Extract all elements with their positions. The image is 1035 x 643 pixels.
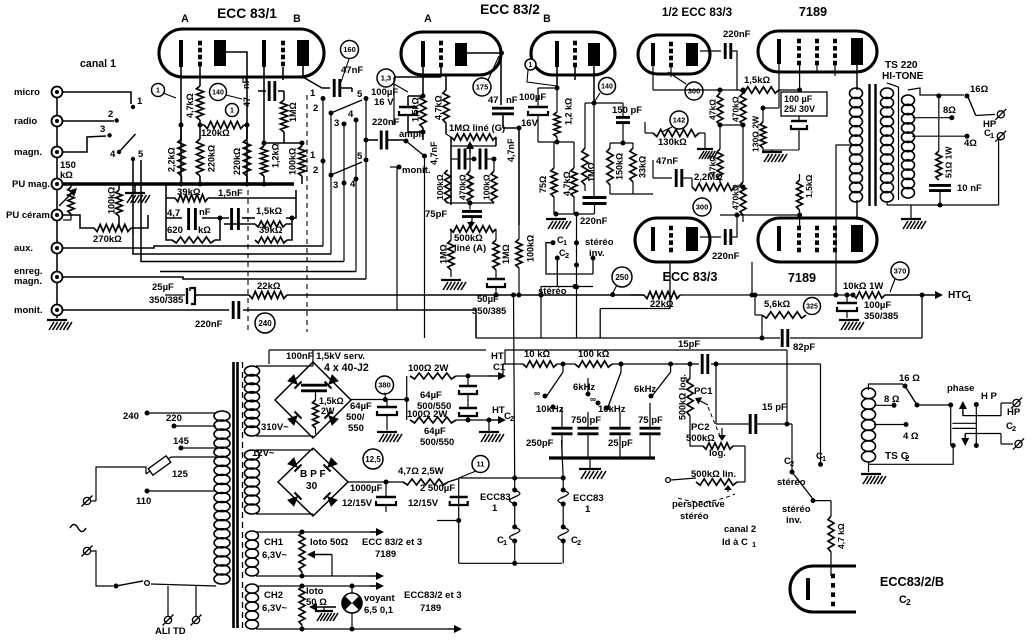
- svg-text:50µF: 50µF: [477, 294, 499, 305]
- svg-text:140: 140: [212, 90, 224, 97]
- wire drv grid: [670, 65, 672, 77]
- switch monit: [390, 165, 431, 311]
- transformer TS220 secondary 2: [902, 95, 915, 198]
- svg-text:stéréo: stéréo: [777, 477, 806, 488]
- svg-text:6kHz: 6kHz: [634, 384, 656, 395]
- svg-text:6,5 0,1: 6,5 0,1: [364, 605, 394, 616]
- capacitor 220nF tube2B: [574, 198, 608, 339]
- cable C1: [509, 293, 520, 564]
- wire mid right bus: [476, 293, 925, 339]
- svg-text:A: A: [424, 13, 432, 25]
- svg-text:7189: 7189: [799, 5, 827, 19]
- svg-text:16Ω: 16Ω: [970, 84, 989, 95]
- resistor 4,7k tube2A: [434, 75, 450, 134]
- wire stereo line: [538, 284, 593, 338]
- svg-text:monit.: monit.: [402, 165, 431, 176]
- svg-text:6kHz: 6kHz: [573, 382, 595, 393]
- phase pole left: [948, 403, 956, 449]
- svg-text:220nF: 220nF: [712, 251, 740, 262]
- resistor 130ohm 2W: [751, 64, 780, 152]
- svg-text:300: 300: [696, 203, 709, 212]
- capacitor 220nF ampli: [364, 117, 405, 150]
- label C1 psu: [0, 0, 1, 1]
- arrow HT C2 psu: [488, 405, 514, 424]
- svg-text:CH2: CH2: [264, 590, 283, 601]
- svg-text:110: 110: [136, 496, 151, 507]
- svg-text:350/385: 350/385: [472, 306, 507, 317]
- svg-text:220nF: 220nF: [580, 216, 608, 227]
- svg-text:350/385: 350/385: [864, 311, 899, 322]
- svg-text:100µF: 100µF: [519, 92, 546, 103]
- svg-text:canal 2: canal 2: [724, 524, 756, 535]
- svg-text:142: 142: [673, 116, 686, 125]
- transformer primary coil: [214, 411, 230, 584]
- tube ECC83/2/B electrodes: [808, 574, 835, 607]
- wire sec bottom: [887, 202, 999, 218]
- capacitor 75pF: [425, 209, 482, 224]
- svg-text:470kΩ: 470kΩ: [731, 184, 741, 210]
- wire drv cathode: [652, 66, 654, 90]
- wire tube2B anode: [592, 66, 597, 197]
- svg-text:5: 5: [357, 89, 363, 100]
- svg-text:75Ω: 75Ω: [538, 176, 548, 193]
- svg-text:4,7nF: 4,7nF: [429, 141, 439, 165]
- svg-text:1: 1: [822, 454, 826, 463]
- rectifier bridge BPF30: [278, 448, 348, 516]
- ground tone: [579, 458, 606, 479]
- svg-text:kΩ: kΩ: [60, 170, 73, 181]
- resistor 150k input: [59, 160, 77, 220]
- svg-text:kΩ: kΩ: [198, 225, 211, 236]
- svg-text:2: 2: [906, 597, 911, 607]
- wire 7189 grid1: [797, 63, 802, 93]
- phase cross bars: [952, 423, 976, 428]
- tube 1/2 ECC83/3 electrodes: [653, 42, 698, 68]
- wire monit extension: [600, 262, 670, 338]
- svg-text:82pF: 82pF: [793, 342, 815, 353]
- speaker2 16ohm: [899, 373, 920, 389]
- svg-text:7189: 7189: [420, 603, 441, 614]
- wire screen drop: [750, 262, 755, 298]
- speaker tap 16ohm: [965, 84, 989, 99]
- svg-text:micro: micro: [14, 87, 40, 98]
- test point 12,5: [363, 449, 383, 469]
- resistor 4,7k out: [813, 501, 846, 576]
- label 240: [123, 411, 216, 423]
- svg-text:6,3V~: 6,3V~: [262, 550, 288, 561]
- wire bridge1 out: [351, 376, 409, 420]
- svg-text:3: 3: [333, 180, 338, 191]
- svg-text:3: 3: [100, 124, 105, 135]
- wire box top: [166, 198, 296, 218]
- wire monit bus: [63, 310, 476, 338]
- wire bus 2: [133, 161, 331, 254]
- svg-text:B: B: [293, 13, 301, 25]
- capacitor 47nF tube1: [241, 78, 284, 107]
- capacitor 47nF drv: [653, 156, 692, 187]
- resistor 1,5k out: [797, 174, 815, 215]
- ground 64uF: [479, 418, 504, 443]
- svg-text:ECC83/2 et 3: ECC83/2 et 3: [404, 590, 462, 601]
- svg-text:TS 220: TS 220: [885, 60, 918, 71]
- tube 7189 upper envelope: [758, 5, 877, 72]
- wire input ground bus: [56, 92, 58, 318]
- rectifier bridge 4x40J2: [275, 362, 351, 438]
- resistor 270k: [93, 224, 131, 245]
- test point 11: [472, 456, 489, 473]
- test point 142: [662, 111, 688, 132]
- svg-text:1,3: 1,3: [381, 74, 391, 83]
- dashed gang PC: [708, 407, 720, 436]
- resistor 2,2M: [692, 172, 746, 191]
- svg-text:ECC 83/1: ECC 83/1: [217, 6, 277, 21]
- test point 370: [890, 262, 909, 292]
- potentiometer 1M line G: [446, 123, 505, 153]
- ground volume box: [441, 280, 466, 290]
- transformer TS220 core: [870, 84, 876, 206]
- test point 1b circle: [226, 104, 239, 117]
- wire tube1A anode: [226, 52, 247, 183]
- svg-text:2,2kΩ: 2,2kΩ: [167, 147, 177, 172]
- svg-text:nF: nF: [506, 95, 518, 106]
- wire tube1B grid: [282, 67, 284, 80]
- transformer TSC2 coil: [862, 384, 904, 462]
- capacitor 220nF monit: [195, 301, 239, 330]
- svg-text:22kΩ: 22kΩ: [650, 299, 674, 310]
- capacitor 2500uF: [408, 483, 468, 509]
- mains terminal 2: [82, 546, 114, 587]
- svg-text:PC2: PC2: [691, 422, 709, 433]
- svg-text:HT: HT: [491, 351, 504, 362]
- input terminal radio: [14, 116, 63, 128]
- svg-text:120kΩ: 120kΩ: [201, 128, 230, 139]
- wire tube1B anode out: [303, 66, 330, 88]
- svg-text:25/ 30V: 25/ 30V: [784, 104, 815, 114]
- resistor 2,2k: [167, 125, 186, 184]
- svg-text:39kΩ: 39kΩ: [259, 225, 283, 236]
- svg-text:100 µF: 100 µF: [784, 94, 813, 104]
- ground HT cap: [839, 320, 864, 330]
- resistor 5,6k: [753, 293, 807, 319]
- heater CH1 label: [262, 537, 288, 561]
- svg-text:4,7Ω 2,5W: 4,7Ω 2,5W: [398, 466, 444, 477]
- svg-text:10kHz: 10kHz: [536, 404, 564, 415]
- svg-text:5: 5: [138, 149, 144, 160]
- svg-text:4 x 40-J2: 4 x 40-J2: [324, 362, 369, 374]
- tube ECC83/1 section B electrodes: [264, 40, 309, 67]
- test point 250: [610, 267, 632, 297]
- wire 7189 screens: [817, 63, 835, 76]
- svg-text:perspective: perspective: [672, 499, 725, 510]
- svg-text:1MΩ: 1MΩ: [587, 162, 597, 182]
- wire sec1 join: [887, 83, 899, 200]
- tube ECC83/2 section B electrodes: [557, 41, 600, 68]
- svg-text:15pF: 15pF: [678, 339, 700, 350]
- svg-text:51Ω 1W: 51Ω 1W: [944, 146, 954, 178]
- svg-text:loto: loto: [306, 586, 324, 597]
- svg-text:1: 1: [967, 294, 972, 303]
- svg-text:ECC83: ECC83: [480, 492, 511, 503]
- wire 7189 anodes: [856, 65, 858, 218]
- svg-text:1: 1: [156, 88, 160, 95]
- svg-text:30: 30: [306, 481, 318, 492]
- resistor 150k tube2B: [607, 143, 625, 194]
- svg-text:voyant: voyant: [364, 593, 395, 604]
- svg-text:380: 380: [378, 381, 391, 390]
- resistor 51ohm 1W: [936, 96, 954, 180]
- capacitor 100uF HT: [837, 293, 899, 323]
- resistor 1M tube2B: [582, 103, 597, 191]
- svg-text:inv.: inv.: [786, 515, 802, 526]
- svg-text:nF: nF: [199, 207, 211, 218]
- resistor 39k: [175, 187, 208, 202]
- wire TSC2 return: [869, 446, 954, 465]
- heater CH1 wires: [256, 528, 384, 580]
- label ECC83 CH1: [362, 537, 422, 560]
- wire radio to selector: [63, 120, 114, 122]
- svg-text:220: 220: [166, 413, 182, 424]
- wire 39k row: [166, 184, 296, 198]
- switch treble 2: [573, 364, 626, 415]
- node dots tone: [561, 362, 674, 367]
- wire cluster risers: [323, 99, 366, 280]
- speaker2 4ohm: [874, 422, 919, 442]
- svg-text:2,2MΩ: 2,2MΩ: [694, 172, 723, 183]
- svg-text:CH1: CH1: [264, 537, 284, 548]
- svg-text:100kΩ: 100kΩ: [107, 187, 117, 214]
- resistor 120k: [200, 121, 247, 139]
- resistor 4,7k tube2B: [562, 142, 577, 214]
- svg-text:150 pF: 150 pF: [612, 105, 642, 116]
- switch treble 1: [534, 364, 564, 415]
- svg-text:1: 1: [310, 150, 316, 161]
- switch phase blade: [905, 386, 951, 408]
- svg-text:liné (A): liné (A): [454, 243, 486, 254]
- wire tube2B grid: [574, 67, 576, 80]
- wire cathode join tube2A: [408, 94, 426, 135]
- capacitor 47nF coupling: [334, 65, 363, 97]
- svg-text:8Ω: 8Ω: [943, 105, 956, 116]
- wire bus 4: [160, 271, 356, 273]
- svg-text:4,7kΩ: 4,7kΩ: [562, 171, 572, 196]
- svg-text:2: 2: [565, 251, 569, 260]
- svg-text:stéréo: stéréo: [680, 511, 709, 522]
- speaker tap 8ohm: [913, 105, 957, 120]
- svg-text:10 nF: 10 nF: [957, 183, 982, 194]
- transformer core: [234, 362, 243, 628]
- tube 7189 upper electrodes: [779, 38, 863, 65]
- resistor 47k b: [708, 149, 724, 183]
- tube ECC83/2 section B envelope: [531, 13, 615, 75]
- svg-text:220nF: 220nF: [723, 29, 751, 40]
- label ECC83 c2: [571, 493, 604, 547]
- svg-text:4,7 kΩ: 4,7 kΩ: [836, 523, 846, 549]
- resistor 1M box left: [439, 229, 455, 277]
- label 100uF 16V b: [519, 92, 546, 129]
- potentiometer PC1: [678, 362, 714, 431]
- label TSC2: [885, 451, 910, 463]
- resistor 100k input: [107, 184, 123, 228]
- svg-text:ECC83/2/B: ECC83/2/B: [880, 575, 944, 589]
- svg-text:magn.: magn.: [14, 276, 42, 287]
- capacitor 220nF drv bot: [700, 213, 802, 263]
- svg-text:10kHz: 10kHz: [598, 404, 626, 415]
- label 100uF 16V a: [371, 87, 398, 108]
- switch stereo inv: [585, 237, 614, 274]
- wire 270k right: [131, 215, 148, 228]
- svg-text:10 kΩ: 10 kΩ: [524, 349, 550, 360]
- svg-text:12,5: 12,5: [365, 455, 381, 464]
- tube 7189 lower electrodes: [779, 225, 863, 252]
- input terminal magn.: [14, 147, 63, 159]
- svg-text:750 pF: 750 pF: [571, 415, 601, 426]
- svg-text:Id à C: Id à C: [722, 537, 748, 548]
- arrow HT C1 psu: [488, 351, 506, 380]
- svg-text:magn.: magn.: [14, 147, 42, 158]
- ground tube2B: [546, 212, 594, 230]
- test point 1c: [525, 59, 557, 86]
- svg-text:2: 2: [1012, 424, 1016, 433]
- node dots bus: [179, 123, 267, 187]
- resistor 100k tone: [575, 349, 612, 367]
- svg-text:140: 140: [601, 84, 613, 91]
- label phase: [947, 383, 974, 394]
- tube ECC83/2 section A envelope: [401, 2, 540, 75]
- capacitor 50uF: [472, 277, 507, 317]
- svg-text:220nF: 220nF: [372, 117, 400, 128]
- svg-text:11: 11: [477, 460, 485, 469]
- label 12V: [252, 448, 275, 459]
- svg-text:130kΩ: 130kΩ: [658, 137, 687, 148]
- wire bus 3: [141, 160, 344, 262]
- wire HP C1 down: [998, 140, 1000, 205]
- box 100uF 25-30V: [781, 92, 827, 116]
- svg-text:4: 4: [348, 109, 354, 120]
- svg-text:7189: 7189: [788, 271, 816, 285]
- svg-text:log.: log.: [709, 448, 726, 459]
- svg-text:16 V: 16 V: [374, 97, 394, 108]
- tube 1/2 ECC83/3 envelope: [638, 6, 733, 74]
- svg-text:47: 47: [242, 97, 252, 107]
- svg-text:nF: nF: [241, 78, 251, 89]
- selector contact 4: [110, 149, 121, 160]
- svg-text:1,2kΩ: 1,2kΩ: [271, 143, 281, 168]
- test point 1 circle: [152, 84, 177, 99]
- svg-text:64µF: 64µF: [420, 390, 442, 401]
- resistor 75ohm: [538, 142, 574, 214]
- input terminal micro: [14, 87, 63, 99]
- capacitor 64uF a: [417, 374, 477, 413]
- switch ampli: [399, 129, 427, 338]
- test point 300a: [668, 72, 703, 100]
- svg-text:250: 250: [615, 273, 629, 282]
- resistor 470k b: [731, 125, 747, 222]
- test point 160: [341, 41, 359, 83]
- svg-text:500/: 500/: [346, 412, 365, 423]
- speaker tap 4ohm: [912, 134, 977, 149]
- svg-text:H P: H P: [981, 391, 998, 402]
- test point 325: [804, 298, 821, 315]
- capacitor 750pF: [571, 412, 601, 458]
- transformer secondary CH1: [246, 531, 259, 576]
- wire tone bus: [549, 456, 655, 459]
- wire micro to selector: [63, 92, 131, 104]
- label ECC83 c1: [480, 492, 511, 547]
- resistor 470k box: [451, 144, 496, 204]
- wire mid join drv: [718, 123, 746, 150]
- capacitor box 2: [232, 208, 239, 230]
- wire primary B+: [836, 145, 856, 295]
- capacitor 10nF: [929, 183, 982, 205]
- svg-text:1: 1: [563, 238, 567, 247]
- svg-text:240: 240: [258, 319, 272, 328]
- test point 240: [255, 313, 275, 333]
- phase arrow up: [959, 401, 1012, 416]
- label perspective: [672, 499, 725, 522]
- resistor 10k tone: [523, 349, 557, 367]
- label BPF30: [300, 469, 326, 492]
- resistor 100k tube1B: [284, 141, 306, 185]
- wire psu top line: [269, 350, 486, 364]
- tube ECC83/2 section A electrodes: [423, 41, 467, 68]
- wire canal2 net: [744, 446, 746, 482]
- switch treble 3: [634, 364, 671, 399]
- switch stereo C2: [555, 248, 569, 287]
- selector contact 2: [108, 109, 119, 123]
- svg-text:250pF: 250pF: [526, 438, 554, 449]
- svg-text:HP: HP: [1007, 407, 1021, 418]
- svg-text:5: 5: [357, 151, 363, 162]
- svg-text:25µF: 25µF: [152, 282, 174, 293]
- label 145: [173, 436, 216, 451]
- wire tube1A cathode down: [180, 67, 182, 184]
- svg-text:10kΩ 1W: 10kΩ 1W: [843, 281, 883, 292]
- svg-text:16 Ω: 16 Ω: [899, 373, 920, 384]
- svg-text:620: 620: [167, 225, 183, 236]
- tube ECC83/2/B envelope: [790, 566, 944, 612]
- resistor 1,5k tube2A: [411, 67, 427, 140]
- svg-text:75pF: 75pF: [425, 209, 447, 220]
- svg-text:1,5kΩ: 1,5kΩ: [744, 75, 770, 86]
- wire 150k 33k top: [610, 141, 653, 195]
- label 1,5k 2W: [313, 392, 344, 434]
- svg-text:stéréo: stéréo: [782, 504, 811, 515]
- svg-text:1: 1: [529, 62, 533, 69]
- resistor 4,7k tube1: [185, 64, 204, 125]
- label 1,5nF: [218, 188, 243, 199]
- wire bridge2 out: [348, 480, 403, 485]
- svg-text:ECC 83/3: ECC 83/3: [662, 270, 717, 284]
- switch HP C1: [968, 97, 1006, 142]
- svg-text:6,3V~: 6,3V~: [262, 603, 288, 614]
- capacitor 150pF: [594, 103, 642, 143]
- svg-text:2: 2: [313, 103, 318, 114]
- svg-text:64µF: 64µF: [350, 401, 372, 412]
- resistor 1,5k box: [255, 206, 286, 227]
- resistor 1M box right: [493, 229, 511, 277]
- resistor 1,2k: [260, 143, 280, 184]
- wire bus aux: [63, 246, 323, 248]
- capacitor box A: [451, 149, 474, 170]
- svg-text:12/15V: 12/15V: [408, 498, 439, 509]
- capacitor 100nF bridge: [301, 385, 327, 391]
- resistor 130k: [645, 122, 718, 159]
- potentiometer 500k line A: [450, 221, 496, 254]
- svg-text:64µF: 64µF: [424, 426, 446, 437]
- capacitor 1000uF: [342, 482, 396, 512]
- svg-text:125: 125: [172, 469, 189, 480]
- svg-text:22kΩ: 22kΩ: [257, 281, 281, 292]
